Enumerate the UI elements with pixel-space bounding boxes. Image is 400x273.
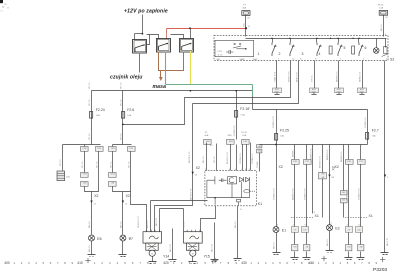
- wire cluster1 right gnd: [306, 252, 308, 258]
- junction S2 bus x338: [337, 38, 338, 39]
- svg-text:GY/BN 0.75: GY/BN 0.75: [273, 116, 275, 128]
- wire brown K3-K4 loop: [159, 52, 184, 71]
- svg-text:BN/RD 0.5: BN/RD 0.5: [341, 151, 343, 162]
- wire drop x313: [312, 145, 314, 214]
- wire drop right section lower: [252, 97, 254, 110]
- svg-text:BN 0.5: BN 0.5: [235, 221, 237, 228]
- svg-text:BK/GN 0.5: BK/GN 0.5: [337, 71, 339, 82]
- wire F2.25 out: [276, 141, 278, 145]
- svg-text:40A: 40A: [204, 134, 208, 137]
- svg-text:10A: 10A: [96, 114, 100, 117]
- wire drop cluster1 right: [306, 145, 308, 160]
- connector box 24B r1: [292, 160, 300, 165]
- wire branch b down: [112, 145, 114, 147]
- ground far right: [381, 253, 389, 255]
- connector box GB r: [319, 173, 327, 179]
- ground G3 below S2: [335, 88, 344, 94]
- svg-text:BN 0.5: BN 0.5: [274, 242, 276, 249]
- svg-text:BK/RD 0.5: BK/RD 0.5: [327, 149, 329, 160]
- connector pin box 17B: [96, 147, 104, 152]
- connector box mid a: [341, 191, 348, 195]
- svg-text:YE 0.5: YE 0.5: [60, 159, 62, 166]
- ground G1 below S2: [273, 88, 282, 94]
- scan artifact top-left corner: [0, 0, 9, 12]
- svg-text:84B: 84B: [228, 135, 232, 137]
- wire drop cluster2 right: [360, 145, 362, 160]
- svg-text:14B: 14B: [111, 148, 115, 150]
- svg-text:BK/BN 0.75: BK/BN 0.75: [311, 148, 313, 160]
- wire F2.7 branch: [367, 110, 369, 133]
- connector X2 pin c: [192, 172, 194, 175]
- svg-text:M: M: [151, 253, 153, 255]
- wire green masa bus: [166, 84, 253, 86]
- wire cluster1 right down: [306, 233, 308, 245]
- svg-text:10A: 10A: [372, 135, 376, 138]
- washer valve Y15: [184, 230, 203, 257]
- arrowhead masa: [159, 77, 163, 81]
- ground under E7: [119, 255, 127, 257]
- connector X1 dashed line cluster 1: [291, 217, 313, 219]
- svg-text:BN 0.75: BN 0.75: [212, 243, 214, 252]
- svg-text:BN 0.5: BN 0.5: [121, 221, 123, 228]
- wire F2.25 branch: [276, 110, 278, 134]
- svg-text:Y14: Y14: [163, 254, 169, 258]
- wire yellow from relay K4: [190, 52, 192, 85]
- connector pin box GB b: [109, 182, 117, 187]
- svg-text:NAP.: NAP.: [253, 58, 258, 61]
- wire drop red rail to relay K4: [190, 29, 192, 39]
- wire right bus y108: [253, 109, 368, 111]
- svg-text:BK/E 0.75: BK/E 0.75: [297, 71, 299, 82]
- wire S2 internal pin riser 4: [338, 39, 340, 43]
- svg-text:410: 410: [77, 261, 83, 265]
- wire drop cluster1 left: [294, 145, 296, 160]
- connector pin box F2B: [81, 147, 89, 152]
- junction +12V node: [142, 33, 144, 35]
- resistor S2 r1: [329, 46, 332, 54]
- svg-text:BN/BK: BN/BK: [293, 150, 295, 157]
- svg-text:BK/YE 0.75: BK/YE 0.75: [190, 188, 192, 200]
- wire split F2.6: [113, 144, 132, 146]
- svg-text:GB: GB: [293, 246, 297, 248]
- svg-text:GY/BN 0.75: GY/BN 0.75: [273, 188, 275, 200]
- svg-text:YE 1.5: YE 1.5: [89, 82, 91, 89]
- fuse F2.6: [122, 112, 125, 119]
- wire right of K1 down: [259, 153, 261, 172]
- svg-text:GY/BK: GY/BK: [257, 161, 259, 168]
- resistor S2 r2: [352, 46, 355, 54]
- ground right of Y15: [211, 260, 219, 262]
- junction red rail relay K4: [189, 27, 191, 29]
- svg-text:BN/BK 0.75: BN/BK 0.75: [293, 188, 295, 200]
- connector pin box 14B c: [242, 140, 250, 145]
- wire branch b lower: [112, 152, 114, 173]
- register mark d: [380, 257, 385, 262]
- svg-text:YE 1.5: YE 1.5: [97, 161, 99, 168]
- svg-text:X2: X2: [196, 166, 200, 170]
- svg-text:GLB: GLB: [111, 173, 116, 175]
- ground cluster1 left: [291, 258, 299, 260]
- ground under E1: [273, 253, 281, 255]
- svg-text:17B: 17B: [97, 148, 101, 150]
- fuse F7: [242, 11, 250, 16]
- svg-text:14B: 14B: [83, 183, 87, 185]
- lamp E2: [327, 225, 333, 231]
- svg-text:P3203: P3203: [373, 267, 387, 273]
- wire K1 pin5 feed: [236, 145, 238, 171]
- wire F8.26 down to S2: [383, 16, 385, 37]
- wire X2 route to Y14 pin1: [131, 192, 147, 232]
- wire green drop to right section: [252, 85, 254, 97]
- wire F2.7 out: [367, 140, 369, 145]
- svg-text:440: 440: [309, 261, 315, 265]
- svg-text:F2B: F2B: [82, 148, 87, 150]
- wire drop x322: [322, 145, 324, 173]
- svg-text:GY/BK 0.75: GY/BK 0.75: [359, 188, 361, 200]
- svg-text:10A: 10A: [280, 135, 284, 138]
- svg-text:10A: 10A: [379, 7, 383, 10]
- wire K1 to Y15 pin4: [201, 206, 216, 232]
- wire relay K2 coil drop: [134, 34, 136, 40]
- svg-text:430: 430: [241, 261, 247, 265]
- svg-text:BN 0.75: BN 0.75: [170, 243, 172, 252]
- wire E2 to ground: [329, 231, 331, 251]
- wire K1 pin1 feed: [206, 143, 208, 171]
- svg-text:F111: F111: [218, 51, 223, 53]
- svg-text:X2: X2: [335, 165, 339, 169]
- connector box 17B r1: [304, 160, 312, 165]
- control unit K1 dashed box: [205, 171, 257, 206]
- wire S2 pin12 down right: [384, 61, 386, 253]
- svg-text:YE 1.5: YE 1.5: [121, 82, 123, 89]
- wire x343 lower: [343, 203, 345, 218]
- svg-text:GY/BK 0.75: GY/BK 0.75: [305, 188, 307, 200]
- relay K4: [180, 39, 194, 53]
- fuse F2.24: [90, 112, 93, 119]
- wire S2 internal pin riser 1: [272, 39, 274, 43]
- connector cluster K58 right box 2: [355, 227, 362, 233]
- wire branch a to X2: [85, 152, 99, 192]
- wire red riser from relay K3: [166, 29, 168, 39]
- svg-text:6: 6: [365, 46, 367, 50]
- svg-text:Y15: Y15: [204, 254, 210, 258]
- wire S2 pin7 to ground: [276, 61, 278, 89]
- connector cluster K58 right box 1: [345, 227, 352, 233]
- ground G2 below S2: [310, 88, 319, 94]
- connector pin box 14B b: [109, 147, 117, 152]
- wire K1 pin8 feed: [230, 145, 232, 171]
- wire E1 feed: [276, 145, 278, 227]
- wire link riser K2 right pin: [147, 35, 150, 45]
- svg-text:GB: GB: [342, 192, 346, 194]
- wire S2 internal pin riser 7: [385, 39, 387, 48]
- wire cluster2 right down: [360, 233, 362, 245]
- svg-text:RD 1.5: RD 1.5: [203, 155, 205, 163]
- wire green from relay K3: [165, 52, 167, 85]
- wire to connector X30: [62, 145, 64, 171]
- connector pin box 84B: [227, 140, 235, 145]
- register mark b: [212, 258, 217, 263]
- svg-text:3: 3: [302, 52, 304, 56]
- svg-text:X1: X1: [315, 214, 319, 218]
- wire branch a down: [84, 145, 86, 147]
- wire cluster2 right gnd: [360, 252, 362, 258]
- junction S2 bus x290: [289, 38, 290, 39]
- svg-text:BU/GN 0.75: BU/GN 0.75: [227, 151, 229, 164]
- svg-text:WH 0.5: WH 0.5: [147, 220, 149, 228]
- wire E6 to ground: [91, 241, 93, 255]
- svg-text:X2: X2: [126, 194, 130, 198]
- fuse F2.7: [366, 133, 369, 140]
- box cluster1 left lower: [292, 245, 298, 251]
- wire gray oil sensor from K2: [139, 53, 141, 73]
- wire S2 internal pin riser 6: [376, 39, 378, 48]
- wire S2 pin3 line B: [193, 61, 299, 104]
- svg-text:24B: 24B: [347, 161, 351, 163]
- svg-text:M: M: [192, 253, 194, 255]
- svg-text:MAR.: MAR.: [240, 58, 246, 61]
- K1 internal circuit: [207, 176, 255, 206]
- connector block X30: [57, 171, 65, 181]
- ground under E6: [88, 255, 96, 257]
- connector X2 pin b: [122, 201, 124, 204]
- wire F2.16 out: [236, 118, 238, 140]
- switch S2-4: [317, 43, 322, 57]
- svg-text:X2: X2: [94, 194, 98, 198]
- svg-text:YE 1.5: YE 1.5: [89, 133, 91, 140]
- wire brown masa arrow stem: [160, 71, 162, 78]
- switch S2-3: [290, 43, 295, 57]
- svg-text:C/BN 0.75: C/BN 0.75: [275, 71, 277, 82]
- fuse F8.26: [379, 10, 387, 15]
- wire K1 pin9 feed: [246, 145, 248, 171]
- wire cluster1 right lower: [306, 165, 308, 227]
- svg-text:17B: 17B: [305, 161, 309, 163]
- relay K2: [133, 40, 147, 54]
- svg-text:GY/GN 0.5: GY/GN 0.5: [240, 153, 242, 164]
- svg-text:Q 12: Q 12: [218, 55, 224, 57]
- lamp E7: [120, 235, 126, 241]
- junction S2 bus x330.6: [330, 38, 331, 39]
- svg-text:420: 420: [163, 261, 169, 265]
- wire relay K2 to K3 link: [147, 35, 159, 39]
- svg-text:EN/GN 0.75: EN/GN 0.75: [320, 155, 322, 168]
- wire E6 feed: [91, 192, 93, 235]
- svg-text:E2: E2: [335, 227, 339, 231]
- connector pin box 74B: [204, 140, 212, 145]
- wire cluster2 right lower: [360, 165, 362, 227]
- fuse F2.25: [275, 134, 278, 141]
- svg-text:F2.25: F2.25: [280, 129, 289, 133]
- svg-text:YE 0.5: YE 0.5: [121, 133, 123, 140]
- register mark a: [85, 258, 90, 263]
- junction S2 feed: [245, 48, 247, 50]
- svg-text:YE 0.5: YE 0.5: [184, 221, 186, 228]
- ground under Y15: [189, 262, 197, 264]
- junction bus yellow node: [190, 90, 192, 92]
- svg-text:YE 1.5: YE 1.5: [129, 161, 131, 168]
- ground cluster2 left: [345, 258, 353, 260]
- svg-text:F3.32: F3.32: [241, 132, 247, 134]
- svg-text:400: 400: [4, 261, 10, 265]
- svg-text:masa: masa: [153, 84, 167, 90]
- svg-text:YE 1.5: YE 1.5: [89, 99, 91, 106]
- S2 internal block F111: [215, 40, 254, 56]
- wire drop cluster2 left: [348, 145, 350, 160]
- wire E2 feed: [329, 145, 331, 225]
- ground cluster1 right: [303, 258, 311, 260]
- svg-text:4: 4: [319, 52, 321, 56]
- wire Y14 motor ground: [152, 257, 154, 262]
- wire E1 to ground: [276, 233, 278, 253]
- washer valve Y14: [143, 230, 162, 257]
- ground G4 below S2: [358, 88, 367, 94]
- coordinate ruler: [4, 261, 377, 265]
- switch S2-2: [272, 43, 277, 57]
- wire cluster2 left down: [348, 233, 350, 245]
- connector box mid b: [341, 199, 348, 203]
- wire F2.6 feed: [122, 91, 124, 112]
- svg-text:10A: 10A: [242, 134, 246, 137]
- svg-text:BN 0.5: BN 0.5: [89, 221, 91, 228]
- svg-text:X2: X2: [279, 165, 283, 169]
- svg-text:GY 0.5: GY 0.5: [312, 74, 314, 82]
- connector cluster K57 left box 1: [291, 227, 298, 233]
- svg-text:1: 1: [258, 52, 260, 56]
- wire K1 pin2 feed: [250, 143, 252, 171]
- svg-text:GY/BN 0.5: GY/BN 0.5: [234, 125, 236, 136]
- svg-text:GB: GB: [347, 246, 351, 248]
- relay K3: [157, 39, 171, 53]
- ground under Y14: [149, 262, 157, 264]
- ground cluster2 right: [357, 258, 365, 260]
- svg-text:BK/YE 0.75: BK/YE 0.75: [189, 151, 191, 163]
- svg-text:BN 0.5: BN 0.5: [327, 239, 329, 246]
- svg-text:E1: E1: [282, 228, 286, 232]
- svg-text:BN 0.5: BN 0.5: [89, 245, 91, 252]
- connector pin box GLB: [81, 173, 89, 178]
- switch S2-5: [338, 43, 343, 57]
- junction S2 bus x353.1: [352, 38, 353, 39]
- wire F2.16 feed: [236, 91, 238, 111]
- wire K1 pin6 feed: [242, 145, 244, 171]
- svg-text:YE 1.5: YE 1.5: [214, 156, 216, 163]
- fuse F2.16: [235, 111, 238, 118]
- svg-text:F8.26: F8.26: [378, 5, 384, 7]
- wire Y15 ground right: [214, 223, 216, 260]
- svg-text:F2.24: F2.24: [96, 108, 105, 112]
- svg-text:84B: 84B: [229, 141, 233, 143]
- svg-text:GLB: GLB: [82, 173, 87, 175]
- connector pin far right: [384, 175, 386, 178]
- svg-text:F2.7: F2.7: [372, 129, 379, 133]
- wire branch b to X2: [113, 152, 131, 192]
- wire cluster1 left down: [294, 233, 296, 245]
- svg-text:BN 0.75: BN 0.75: [387, 237, 389, 246]
- svg-text:YE/GN 0.75: YE/GN 0.75: [138, 216, 140, 228]
- wire Y14 pin4 drop: [159, 209, 161, 232]
- box cluster1 right lower: [304, 245, 310, 251]
- wire K1 pin4 feed: [216, 144, 218, 171]
- wire E7 to ground: [122, 241, 124, 255]
- connector pin box right of K1 a: [257, 145, 262, 149]
- wire S2 pin8 to ground: [314, 61, 316, 89]
- S2 regulator symbol: [382, 47, 389, 57]
- wire split left F2.24: [63, 144, 101, 146]
- ground right of Y14: [169, 260, 177, 262]
- junction bus F2.16 node: [235, 90, 237, 92]
- svg-text:BK/BU 0.5: BK/BU 0.5: [360, 71, 362, 82]
- junction S2 bus x317: [316, 38, 317, 39]
- svg-text:S2: S2: [390, 58, 394, 62]
- wire S2 internal top bus: [246, 38, 387, 40]
- svg-text:17B: 17B: [359, 161, 363, 163]
- svg-text:czujnik oleju: czujnik oleju: [110, 75, 143, 81]
- switch S2-6: [359, 43, 364, 57]
- svg-text:BK 0.5: BK 0.5: [381, 24, 383, 31]
- wire F2.6 out: [122, 119, 124, 145]
- svg-text:GY/BN 0.5: GY/BN 0.5: [365, 117, 367, 128]
- lamp S2 illumination: [373, 48, 379, 54]
- wire cluster1 left lower: [294, 165, 296, 227]
- wire long BK/YE to Y14: [155, 104, 193, 232]
- wire x322 lower: [322, 179, 324, 218]
- connector pin E2 wire: [328, 175, 330, 178]
- wire Y14 pin2 drop: [150, 201, 152, 232]
- junction K1 internal: [214, 197, 216, 199]
- svg-text:12D: 12D: [357, 230, 361, 232]
- svg-text:GB: GB: [258, 146, 262, 148]
- wire S2 internal pin riser 3: [316, 39, 318, 43]
- svg-text:40A: 40A: [242, 7, 246, 10]
- wire K1 ground: [237, 206, 239, 259]
- svg-text:YE 1.5: YE 1.5: [110, 161, 112, 168]
- svg-text:2: 2: [279, 52, 281, 56]
- wire drop x343: [343, 145, 345, 191]
- svg-text:10A: 10A: [127, 114, 131, 117]
- wire right bus y144: [260, 144, 368, 146]
- svg-text:YE 1.5: YE 1.5: [82, 161, 84, 168]
- wire relay K3 to K4 link: [171, 35, 184, 39]
- wire cluster1 left gnd: [294, 252, 296, 258]
- svg-text:X1: X1: [369, 214, 373, 218]
- wire E7 feed: [122, 192, 124, 235]
- wire Y15 motor ground: [192, 257, 194, 262]
- wire F2.24 out: [91, 119, 93, 145]
- junction F7 red rail: [245, 27, 247, 29]
- junction S2 bus x272: [271, 38, 272, 39]
- svg-text:7.5A: 7.5A: [240, 113, 245, 116]
- wire h-link to Y14 pin2: [151, 200, 208, 202]
- wire Y15 pin1 drop: [183, 209, 185, 232]
- connector pin box 14B: [81, 182, 89, 187]
- svg-text:GY/BK 1.5: GY/BK 1.5: [252, 153, 254, 164]
- lamp E1: [273, 227, 279, 233]
- svg-text:YE 1.5: YE 1.5: [121, 99, 123, 106]
- svg-text:K1: K1: [258, 202, 262, 206]
- svg-text:5: 5: [344, 46, 346, 50]
- wire F2.24 feed: [91, 91, 93, 112]
- svg-text:17B: 17B: [129, 148, 133, 150]
- wire branch a lower: [84, 152, 86, 173]
- wire S2 internal pin riser 5: [358, 39, 360, 43]
- wire S2 internal pin riser 2: [290, 39, 292, 43]
- wire main bus y90: [92, 90, 253, 92]
- ground under K1: [234, 259, 242, 261]
- connector X1 dashed line cluster 2: [345, 217, 367, 219]
- register mark c: [321, 256, 326, 261]
- wire +12V feed down: [142, 15, 144, 34]
